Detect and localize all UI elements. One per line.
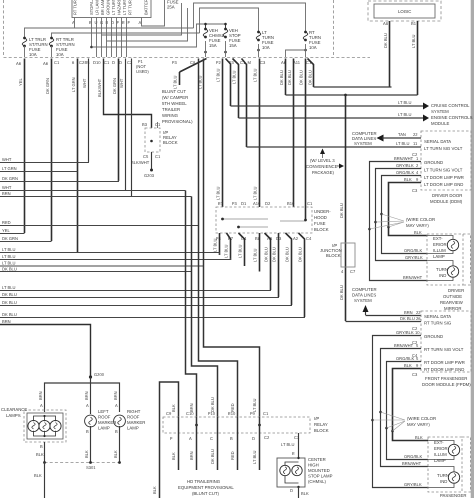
svg-text:LAMP: LAMP (98, 426, 110, 431)
svg-text:MARKER: MARKER (127, 420, 145, 425)
wire: LT BLU to engine controls row (232, 59, 239, 119)
svg-text:TRAILER: TRAILER (162, 107, 180, 112)
svg-text:DK BLU: DK BLU (2, 300, 17, 305)
BRN labels on lamp drops (38, 391, 118, 408)
wire: DK BLU A6 down to LOGIC row (279, 59, 286, 96)
module: passenger outside rearview mirror dashed box (428, 437, 471, 492)
module U2: LOGIC box (trailer lamp logic) (368, 1, 441, 26)
svg-text:DK GRN: DK GRN (2, 236, 18, 241)
svg-text:EXT-: EXT- (433, 236, 443, 241)
svg-text:BLOCK: BLOCK (163, 140, 178, 145)
svg-text:MODULE (DDM): MODULE (DDM) (430, 199, 463, 204)
note: blunt cut camper provision (162, 89, 193, 124)
svg-text:ERIOR: ERIOR (434, 446, 448, 451)
svg-text:BLK: BLK (84, 450, 89, 458)
svg-text:PROVISIONAL): PROVISIONAL) (162, 119, 193, 124)
svg-text:BLK: BLK (404, 177, 412, 182)
svg-text:WHT: WHT (119, 78, 124, 88)
wire: LT BLU row to engine controls module (239, 112, 473, 126)
svg-text:BLK: BLK (415, 435, 423, 440)
svg-text:C1: C1 (104, 60, 110, 65)
wire: BLK/WHT relay block to ground (131, 152, 152, 170)
svg-text:ROOF: ROOF (127, 415, 140, 420)
svg-text:BRN: BRN (2, 319, 11, 324)
svg-text:LT BLU: LT BLU (232, 70, 237, 84)
svg-text:C1: C1 (54, 60, 60, 65)
wire row: WHT to x125 (0, 190, 186, 192)
svg-text:ORG/BLK: ORG/BLK (404, 248, 422, 253)
pin labels relay band top (166, 411, 269, 416)
junction at y47 feed (90, 46, 93, 49)
wire: DK BLU A11 to fuse block B10 (287, 59, 294, 208)
svg-text:B10: B10 (287, 201, 295, 206)
svg-text:ORG/BLK: ORG/BLK (396, 356, 414, 361)
lamp: RIGHT ROOF MARKER LAMP (114, 409, 146, 431)
svg-text:MIRROR: MIRROR (444, 306, 461, 311)
svg-text:I/P: I/P (314, 416, 319, 421)
wire: BRN bus to marker lamps (45, 383, 120, 412)
module: DRIVER DOOR MODULE (DDM) dashed box (412, 131, 471, 204)
svg-text:LAMP: LAMP (433, 254, 445, 259)
svg-text:MAY VARY): MAY VARY) (406, 223, 429, 228)
svg-text:B5: B5 (85, 60, 91, 65)
svg-text:WHT: WHT (82, 78, 87, 88)
svg-text:A: A (115, 403, 118, 408)
wire labels below relay band (171, 449, 257, 464)
wire: mid vertical to relay band BRN (186, 191, 197, 418)
svg-text:D10: D10 (93, 60, 101, 65)
svg-text:LT TURN: LT TURN (111, 0, 116, 15)
svg-text:IND: IND (439, 273, 446, 278)
svg-text:CRUISE CONTROL: CRUISE CONTROL (431, 103, 470, 108)
lamp: passenger turn indicator (428, 467, 460, 488)
lamp assembly: CENTER HIGH MOUNTED STOP LAMP (CHMSL) (277, 457, 333, 488)
svg-text:F3: F3 (172, 60, 178, 65)
svg-text:F3: F3 (232, 201, 238, 206)
svg-text:RELAY: RELAY (314, 422, 328, 427)
wire: U1 pins to connector C1 dashed line (97, 18, 127, 58)
svg-text:BRN/WHT: BRN/WHT (402, 461, 422, 466)
svg-text:LOGIC: LOGIC (398, 9, 411, 14)
wire: battery rail to LT TURN fuse (second run) (200, 8, 259, 33)
svg-text:LT BLU: LT BLU (253, 68, 258, 82)
svg-text:DK GRN: DK GRN (45, 78, 50, 94)
fuse F6: RT TURN FUSE 10A (303, 30, 321, 50)
svg-text:COMPUTER: COMPUTER (352, 287, 377, 292)
svg-text:BRN: BRN (84, 391, 89, 400)
svg-text:DK BLU: DK BLU (339, 203, 344, 218)
svg-text:C1: C1 (263, 411, 269, 416)
svg-text:SERIAL DATA: SERIAL DATA (424, 139, 451, 144)
wire: GRY/BLK DDM pin 2 to driver mirror (376, 163, 428, 261)
svg-text:DK BLU: DK BLU (279, 70, 284, 85)
wire: YEL trailer left turn feed (18, 59, 25, 234)
wire: mid vertical to relay band LT BLU (204, 59, 260, 418)
label: driver outside rearview mirror (440, 288, 464, 311)
svg-text:TAN: TAN (398, 132, 406, 137)
svg-text:RT TURN: RT TURN (73, 0, 78, 15)
svg-text:C: C (210, 436, 213, 441)
wire: DK BLU from LOGIC rail down through I/P junction block to FPDM pin 26 (339, 95, 346, 321)
svg-text:YEL: YEL (18, 78, 23, 86)
svg-text:BLK: BLK (301, 491, 309, 496)
svg-text:ILLUM: ILLUM (433, 248, 446, 253)
svg-text:DK BLU: DK BLU (2, 312, 17, 317)
svg-text:MOUNTED: MOUNTED (308, 468, 330, 473)
svg-text:B: B (40, 444, 43, 449)
wire: LT BLU C3 to fuse block A10 (253, 59, 260, 208)
svg-text:LT BLU: LT BLU (398, 100, 412, 105)
svg-text:DK BLU: DK BLU (287, 70, 292, 85)
svg-text:RT TURN: RT TURN (128, 0, 133, 15)
svg-text:C7: C7 (350, 269, 356, 274)
wire: LT BLU long run C1 to relay band LT BLU (198, 75, 203, 89)
svg-text:LT BLU: LT BLU (173, 75, 178, 89)
pin labels fuse block top (218, 201, 313, 206)
svg-text:(BLUNT CUT): (BLUNT CUT) (192, 491, 219, 496)
svg-text:LT BLU: LT BLU (411, 34, 416, 48)
lamp: driver exterior illum lamp (427, 236, 459, 254)
wire: BRN drop to left roof marker (90, 377, 92, 414)
svg-text:LAMP: LAMP (127, 426, 139, 431)
svg-text:BRN: BRN (113, 391, 118, 400)
svg-text:STOP/LAM: STOP/LAM (89, 0, 94, 15)
wires through relay band down to blunt cuts (179, 417, 260, 470)
svg-text:WHT: WHT (2, 185, 12, 190)
svg-text:CLEARANCE: CLEARANCE (1, 407, 27, 412)
svg-text:25A: 25A (167, 5, 175, 10)
svg-text:CENTER: CENTER (308, 457, 326, 462)
svg-text:C3: C3 (412, 372, 418, 377)
svg-text:IND: IND (440, 479, 447, 484)
svg-text:LT BLU: LT BLU (396, 141, 410, 146)
svg-text:C10: C10 (186, 411, 194, 416)
svg-text:WIRING: WIRING (162, 113, 179, 118)
svg-text:F2: F2 (216, 60, 222, 65)
wire: VEH STOP fuse output to C1 (224, 41, 227, 57)
svg-text:BLK: BLK (171, 452, 176, 460)
svg-text:B: B (230, 436, 233, 441)
svg-text:D: D (290, 488, 293, 493)
module: driver outside rearview mirror dashed box (427, 234, 471, 285)
svg-text:DK BLU: DK BLU (339, 285, 344, 300)
svg-text:LT GRN: LT GRN (2, 166, 17, 171)
note: wire color may vary (driver) with leader dots (368, 213, 435, 231)
ground G203 (144, 169, 155, 179)
fuse F4: VEH STOP FUSE 15A (223, 23, 241, 48)
svg-text:DOOR MODULE (FPDM): DOOR MODULE (FPDM) (422, 382, 471, 387)
junction dots inside fuse block (221, 218, 224, 221)
svg-text:LT DOOR LMP GND: LT DOOR LMP GND (424, 182, 463, 187)
svg-text:F9: F9 (250, 411, 256, 416)
svg-text:LT BLU: LT BLU (2, 261, 16, 266)
wire: BRN feed to park lamp row (131, 59, 133, 197)
note: wire color may vary (passenger) with leader dots (371, 411, 436, 433)
svg-text:LT BLU: LT BLU (2, 247, 16, 252)
svg-text:SYSTEM: SYSTEM (354, 141, 372, 146)
wire: DK BLU rail to LOGIC A8 (314, 86, 392, 88)
svg-text:LT BLU: LT BLU (216, 186, 221, 200)
pin labels fuse block bottom (216, 236, 312, 241)
wire: DK GRN trailer right turn feed (45, 59, 52, 242)
pin labels relay band bottom (170, 435, 300, 441)
svg-text:LT BLU: LT BLU (252, 450, 257, 464)
svg-text:E: E (122, 20, 125, 25)
svg-text:LT BLU: LT BLU (213, 238, 218, 252)
svg-text:DK GRN: DK GRN (112, 78, 117, 94)
svg-text:BRN/WHT: BRN/WHT (403, 275, 423, 280)
svg-text:C5: C5 (143, 154, 149, 159)
svg-text:DK BLU: DK BLU (210, 449, 215, 464)
svg-text:C4: C4 (306, 236, 312, 241)
wire: BRN/WHT FPDM pin 5 to passenger mirror (381, 343, 429, 467)
svg-text:USED): USED) (136, 69, 149, 74)
svg-text:11: 11 (413, 141, 418, 146)
wire row: DK BLU down to relay band DK BLU (0, 271, 192, 273)
svg-text:DK BLU: DK BLU (299, 70, 304, 85)
pin letters under connector U1 (72, 20, 142, 25)
svg-text:LAMP: LAMP (434, 458, 446, 463)
svg-text:B: B (106, 20, 109, 25)
svg-text:PASSENGER: PASSENGER (440, 493, 466, 498)
svg-text:LT TURN SIG VOLT: LT TURN SIG VOLT (424, 146, 463, 151)
fuse F3: VEH CHMSL FUSE 15A (203, 24, 224, 48)
svg-text:BATTERY: BATTERY (144, 0, 149, 15)
svg-text:SYSTEM: SYSTEM (354, 298, 372, 303)
fuse F25: TRLR FUSE 25A feed (142, 0, 179, 26)
svg-text:C2: C2 (264, 435, 270, 440)
svg-text:D: D (252, 436, 255, 441)
svg-text:LT BLU: LT BLU (2, 254, 16, 259)
wire: LT BLU C1 to fuse block E7 (216, 59, 223, 208)
svg-text:DATA LINES: DATA LINES (352, 293, 376, 298)
wire row: WHT to x88 (0, 161, 89, 163)
svg-text:OUTSIDE: OUTSIDE (443, 294, 462, 299)
wire: BLK DDM pin 9 to driver mirror lamp (389, 177, 428, 236)
svg-text:BLK: BLK (171, 404, 176, 412)
svg-text:CONVENIENCE: CONVENIENCE (306, 164, 338, 169)
svg-text:LT BLU: LT BLU (216, 68, 221, 82)
wire: LT BLU to serial data row (242, 59, 247, 148)
svg-text:B: B (86, 429, 89, 434)
svg-text:A2: A2 (293, 236, 299, 241)
svg-text:15A: 15A (209, 43, 217, 48)
svg-text:RT TURN SIG: RT TURN SIG (424, 321, 452, 326)
wire: nested feed run C to VEH fuses rail (92, 24, 226, 47)
wire: DK BLU rail to LOGIC B1 with tap to junction block (286, 94, 418, 97)
svg-text:RT TURN SIG VOLT: RT TURN SIG VOLT (424, 347, 464, 352)
svg-text:BRN/WHT: BRN/WHT (394, 343, 414, 348)
wire: DK BLU C1 to fuse block C1 (299, 59, 306, 221)
lamp: driver turn indicator (427, 261, 459, 281)
svg-text:22: 22 (413, 132, 418, 137)
svg-text:BLK/WHT: BLK/WHT (131, 160, 150, 165)
wire row: BRN to x131 (0, 196, 192, 198)
wire row: LT BLU to fuse block D3 (tee at x205) (0, 296, 279, 299)
svg-text:DK BLU: DK BLU (383, 33, 388, 48)
lamp: LEFT ROOF MARKER LAMP (85, 409, 117, 431)
wire row: DK BLU to fuse block C4 (0, 316, 305, 319)
svg-text:A10: A10 (253, 201, 261, 206)
wire: DK GRN feed 2 (112, 59, 119, 182)
wire: WHT feed 2 (119, 59, 126, 191)
svg-text:TURN: TURN (437, 473, 449, 478)
svg-text:10A: 10A (309, 45, 317, 50)
lamp assembly: CLEARANCE LAMPS (1, 407, 66, 442)
wire: BLK ground run up-and-over to relay band (160, 382, 179, 498)
svg-text:10: 10 (415, 330, 420, 335)
svg-text:SERIAL DATA: SERIAL DATA (424, 314, 451, 319)
svg-text:ORG/BLK: ORG/BLK (396, 170, 414, 175)
svg-text:BLK: BLK (113, 450, 118, 458)
svg-text:G203: G203 (144, 173, 155, 178)
wire: clearance lamps ground BLK (36, 442, 45, 462)
svg-text:D2: D2 (265, 201, 271, 206)
svg-text:GROUND: GROUND (424, 334, 443, 339)
svg-text:M: M (248, 60, 252, 65)
svg-text:LT BLU: LT BLU (253, 248, 258, 262)
svg-text:GROUND: GROUND (106, 0, 111, 15)
svg-text:LT TURN: LT TURN (122, 0, 127, 15)
wire: left marker ground BLK (84, 426, 91, 462)
wire: BLK/WHT feed to I/P relay block (97, 59, 152, 129)
svg-text:LAMPS: LAMPS (6, 413, 21, 418)
svg-text:B3: B3 (142, 122, 148, 127)
wire row: DK BLU to fuse block A2 (0, 304, 292, 307)
svg-text:C1: C1 (155, 122, 161, 127)
wire: RT TURN fuse output to C1 with stub (286, 44, 307, 57)
svg-text:BRN: BRN (404, 310, 413, 315)
wire: right marker ground BLK (113, 426, 120, 462)
svg-text:C9: C9 (166, 411, 172, 416)
svg-text:HD TRAILERING: HD TRAILERING (187, 479, 221, 484)
svg-text:(WIRE COLOR: (WIRE COLOR (406, 217, 435, 222)
ground splice S301 dashed bus (43, 461, 121, 470)
svg-text:WHT: WHT (2, 157, 12, 162)
relay band labels above (171, 397, 257, 412)
wire row: LT GRN to x103 (0, 171, 78, 173)
wire row: DK GRN to x51 (0, 241, 52, 243)
junction dots in relay band (195, 424, 198, 427)
svg-text:U: U (95, 20, 98, 25)
block: UNDER-HOOD FUSE BLOCK (216, 207, 331, 233)
svg-text:YEL: YEL (2, 228, 10, 233)
svg-text:G200: G200 (94, 372, 105, 377)
svg-text:(W/ LEVEL 3: (W/ LEVEL 3 (310, 158, 335, 163)
wire: BLK FPDM pin 9 to passenger mirror lamp (393, 363, 429, 441)
svg-text:GRY/BLK: GRY/BLK (404, 482, 422, 487)
svg-text:E7: E7 (218, 201, 224, 206)
svg-text:LT BLU: LT BLU (252, 398, 257, 412)
svg-text:D1: D1 (241, 201, 247, 206)
relay block K2: I/P RELAY BLOCK (bottom band) (163, 416, 329, 433)
svg-text:BR LAMP: BR LAMP (100, 0, 105, 15)
wire: fuse block D3 down to row (272, 233, 279, 297)
svg-text:A6: A6 (43, 61, 49, 66)
lamp: passenger exterior illum lamp (428, 441, 460, 460)
wire: nested feed run B (107, 8, 188, 41)
svg-text:10A: 10A (262, 45, 270, 50)
svg-text:C1: C1 (155, 154, 161, 159)
svg-text:ILLUM: ILLUM (434, 452, 447, 457)
wire: LOGIC pin A8 DK BLU down to rail (383, 21, 390, 87)
left row labels (2, 157, 18, 324)
wire: U1 pin E to RT TRLR fuse rail (52, 18, 200, 48)
svg-text:A: A (86, 403, 89, 408)
svg-text:LT DOOR LMP PWR: LT DOOR LMP PWR (424, 175, 464, 180)
svg-text:B: B (115, 429, 118, 434)
svg-text:D: D (112, 60, 115, 65)
svg-text:RED: RED (2, 220, 11, 225)
svg-text:LEFT: LEFT (98, 409, 109, 414)
note: HD trailering equipment provisional (178, 479, 234, 496)
svg-text:DK GRN: DK GRN (2, 176, 18, 181)
svg-text:5TH WHEEL: 5TH WHEEL (162, 101, 187, 106)
wire row: BRN to ground splice G200 (0, 325, 91, 378)
wire: LOGIC pin B1 LT BLU down to rail (411, 21, 418, 95)
wire: LT TURN fuse output to C1 (257, 44, 260, 57)
wire: WHT feed (82, 59, 89, 163)
wire row: LT BLU down to relay band BRN (0, 265, 204, 267)
fuse F5: LT TURN FUSE 10A (256, 30, 274, 50)
svg-text:GRY/BLK: GRY/BLK (396, 163, 414, 168)
wire: BLK ground continues down (34, 462, 45, 498)
wire row: LT BLU to fuse block F4 (tee at x77) (0, 253, 220, 256)
wire: mid vertical to relay band RED (199, 59, 238, 418)
node: dashed connector line C1 horizontal (4, 57, 371, 59)
svg-text:C1: C1 (307, 201, 313, 206)
svg-text:HIGH: HIGH (308, 463, 319, 468)
svg-text:TURN: TURN (436, 267, 448, 272)
wire row: DK GRN to x118 (0, 180, 119, 182)
svg-text:LT BLU: LT BLU (238, 244, 243, 258)
fuse block internal bus segments (223, 219, 306, 227)
svg-text:BLOCK: BLOCK (314, 428, 329, 433)
svg-text:LT BLU: LT BLU (2, 285, 16, 290)
wire: BRN/WHT DDM pin 1 to driver mirror (370, 156, 428, 281)
svg-text:F10: F10 (208, 411, 216, 416)
wire: RT TRLR fuse output to C1 (51, 46, 53, 57)
svg-text:BLOCK: BLOCK (314, 227, 329, 232)
svg-text:BLK: BLK (404, 363, 412, 368)
svg-text:(WIRE COLOR: (WIRE COLOR (407, 416, 436, 421)
svg-text:BLK: BLK (36, 452, 44, 457)
svg-text:10A: 10A (56, 52, 64, 57)
svg-text:LT BLU: LT BLU (224, 244, 229, 258)
note: computer data lines system (upper) with arrow (352, 131, 421, 146)
node: dashed connector boundary left (3, 0, 5, 57)
svg-text:BLK: BLK (152, 486, 157, 494)
svg-text:22: 22 (416, 310, 421, 315)
svg-text:RIGHT: RIGHT (127, 409, 141, 414)
svg-text:FRONT PASSENGER: FRONT PASSENGER (425, 376, 467, 381)
svg-text:DK BLU: DK BLU (400, 316, 415, 321)
wire: VEH CHMSL fuse output to C1 (204, 41, 207, 57)
svg-text:DK BLU: DK BLU (285, 247, 290, 262)
svg-text:D: D (119, 60, 122, 65)
svg-text:ENGINE CONTROLS: ENGINE CONTROLS (431, 115, 473, 120)
ground splice G200 (89, 372, 105, 379)
svg-text:STOP LAMP: STOP LAMP (308, 474, 333, 479)
wire: LT BLU row to cruise control system (231, 100, 471, 114)
wire: fuse block A3 down to row (264, 233, 271, 290)
svg-text:LR LAMP: LR LAMP (95, 0, 100, 15)
wire: GRY/BLK FPDM pin 10 to passenger mirror (373, 330, 429, 488)
svg-text:LT GRN: LT GRN (71, 77, 76, 92)
wire: LT BLU to cruise control row (226, 59, 231, 107)
wire: fuse block B8 stub (253, 233, 260, 272)
wire: DK BLU FPDM pin 26 (346, 316, 422, 322)
